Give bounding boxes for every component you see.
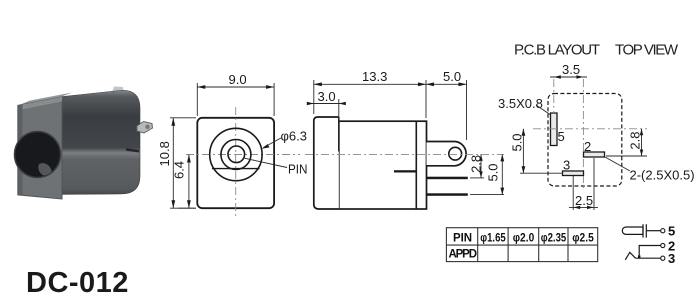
svg-text:5.0: 5.0 bbox=[509, 133, 524, 151]
terminal circle 3 bbox=[661, 256, 665, 260]
photo: small top tab bbox=[112, 87, 124, 94]
svg-text:9.0: 9.0 bbox=[229, 72, 247, 87]
terminal 3 wiring with switch lever bbox=[625, 252, 660, 259]
dim 2.8 right side bbox=[470, 154, 484, 178]
svg-text:2: 2 bbox=[584, 139, 591, 154]
front view body square bbox=[197, 118, 274, 208]
dim 2.5 bottom bbox=[569, 158, 598, 210]
svg-text:φ6.3: φ6.3 bbox=[281, 129, 308, 144]
dim 13.3 bbox=[314, 80, 426, 118]
dim 5.0 top bbox=[426, 80, 467, 140]
svg-text:5: 5 bbox=[668, 224, 675, 239]
slot pad 3.5X0.8 bbox=[551, 113, 558, 146]
side view body rectangle bbox=[339, 121, 427, 209]
lug hole bbox=[449, 147, 462, 160]
svg-text:APPD: APPD bbox=[449, 249, 478, 261]
label 2-(2.5X0.5) with leader bbox=[605, 157, 630, 171]
svg-text:3: 3 bbox=[563, 158, 570, 173]
svg-text:5.0: 5.0 bbox=[485, 163, 500, 181]
chord line bbox=[212, 168, 260, 170]
solder lug side bbox=[427, 142, 467, 166]
flange/body boundary line bbox=[338, 117, 340, 152]
svg-text:5.0: 5.0 bbox=[443, 69, 461, 84]
pin 1 bbox=[427, 177, 468, 180]
side view centerline bbox=[305, 153, 504, 155]
svg-text:3.5X0.8: 3.5X0.8 bbox=[498, 96, 543, 111]
middle circle bbox=[221, 140, 251, 170]
photo: front plate bbox=[18, 97, 62, 199]
pcb vertical centerline bbox=[582, 79, 584, 190]
svg-text:2-(2.5X0.5): 2-(2.5X0.5) bbox=[630, 168, 695, 183]
svg-text:DC-012: DC-012 bbox=[26, 267, 129, 299]
side view flange bbox=[314, 117, 339, 209]
svg-text:PIN: PIN bbox=[288, 162, 308, 177]
inner circle pin bbox=[228, 146, 245, 163]
svg-text:φ2.5: φ2.5 bbox=[572, 233, 594, 245]
pad 2 bbox=[584, 152, 605, 157]
dim 9.0 bbox=[197, 83, 274, 116]
photo: jack hole bbox=[15, 132, 61, 178]
svg-text:13.3: 13.3 bbox=[362, 69, 387, 84]
internal pin bbox=[394, 170, 416, 172]
svg-text:3.0: 3.0 bbox=[318, 89, 336, 104]
svg-text:10.8: 10.8 bbox=[157, 141, 172, 166]
svg-text:2.5: 2.5 bbox=[575, 193, 593, 208]
svg-text:3.5: 3.5 bbox=[562, 62, 580, 77]
dim 5.0 pcb left bbox=[520, 129, 563, 173]
photo: plate top edge highlight bbox=[18, 97, 62, 110]
dim 3.5 top bbox=[550, 76, 587, 78]
svg-text:φ1.65: φ1.65 bbox=[480, 233, 506, 245]
photo: pin inside hole bbox=[38, 163, 51, 176]
svg-text:2.8: 2.8 bbox=[628, 132, 643, 150]
slot centerline bbox=[553, 79, 555, 113]
front view horizontal centerline bbox=[186, 154, 300, 156]
outer circle φ6.3 bbox=[210, 128, 262, 180]
photo: front plate top face bbox=[18, 93, 72, 106]
svg-text:P.C.B LAYOUT: P.C.B LAYOUT bbox=[514, 42, 600, 59]
photo: DC jack body cylinder bbox=[58, 90, 140, 194]
pad 3 bbox=[563, 171, 584, 176]
dim 3.0 flange bbox=[308, 99, 345, 118]
svg-text:TOP VIEW: TOP VIEW bbox=[615, 42, 679, 59]
pin 2 bbox=[427, 193, 468, 196]
svg-text:5: 5 bbox=[558, 129, 565, 144]
dim 10.8 bbox=[170, 118, 196, 208]
terminal circle 5 bbox=[661, 229, 665, 233]
svg-text:φ2.35: φ2.35 bbox=[541, 233, 567, 245]
back plate line bbox=[415, 121, 417, 209]
terminal circle 2 bbox=[661, 243, 665, 247]
dim 2.8 pcb right bbox=[606, 129, 647, 156]
svg-text:3: 3 bbox=[668, 251, 675, 266]
front view vertical centerline bbox=[235, 107, 237, 218]
dim 6.4 bbox=[178, 207, 196, 209]
photo: plate left edge shade bbox=[18, 105, 23, 196]
schematic plug barrel pin 5 bbox=[622, 224, 660, 237]
terminal 2 wiring bbox=[639, 246, 661, 259]
svg-text:φ2.0: φ2.0 bbox=[513, 233, 535, 245]
pcb horizontal centerline bbox=[533, 128, 647, 130]
svg-text:2.8: 2.8 bbox=[469, 155, 484, 173]
junction dot bbox=[638, 255, 640, 258]
photo: solder lug tab bbox=[137, 122, 153, 134]
svg-text:PIN: PIN bbox=[453, 233, 472, 245]
svg-text:6.4: 6.4 bbox=[171, 161, 186, 179]
dim 5.0 right side bbox=[470, 154, 504, 194]
pcb dashed outline bbox=[548, 94, 622, 187]
